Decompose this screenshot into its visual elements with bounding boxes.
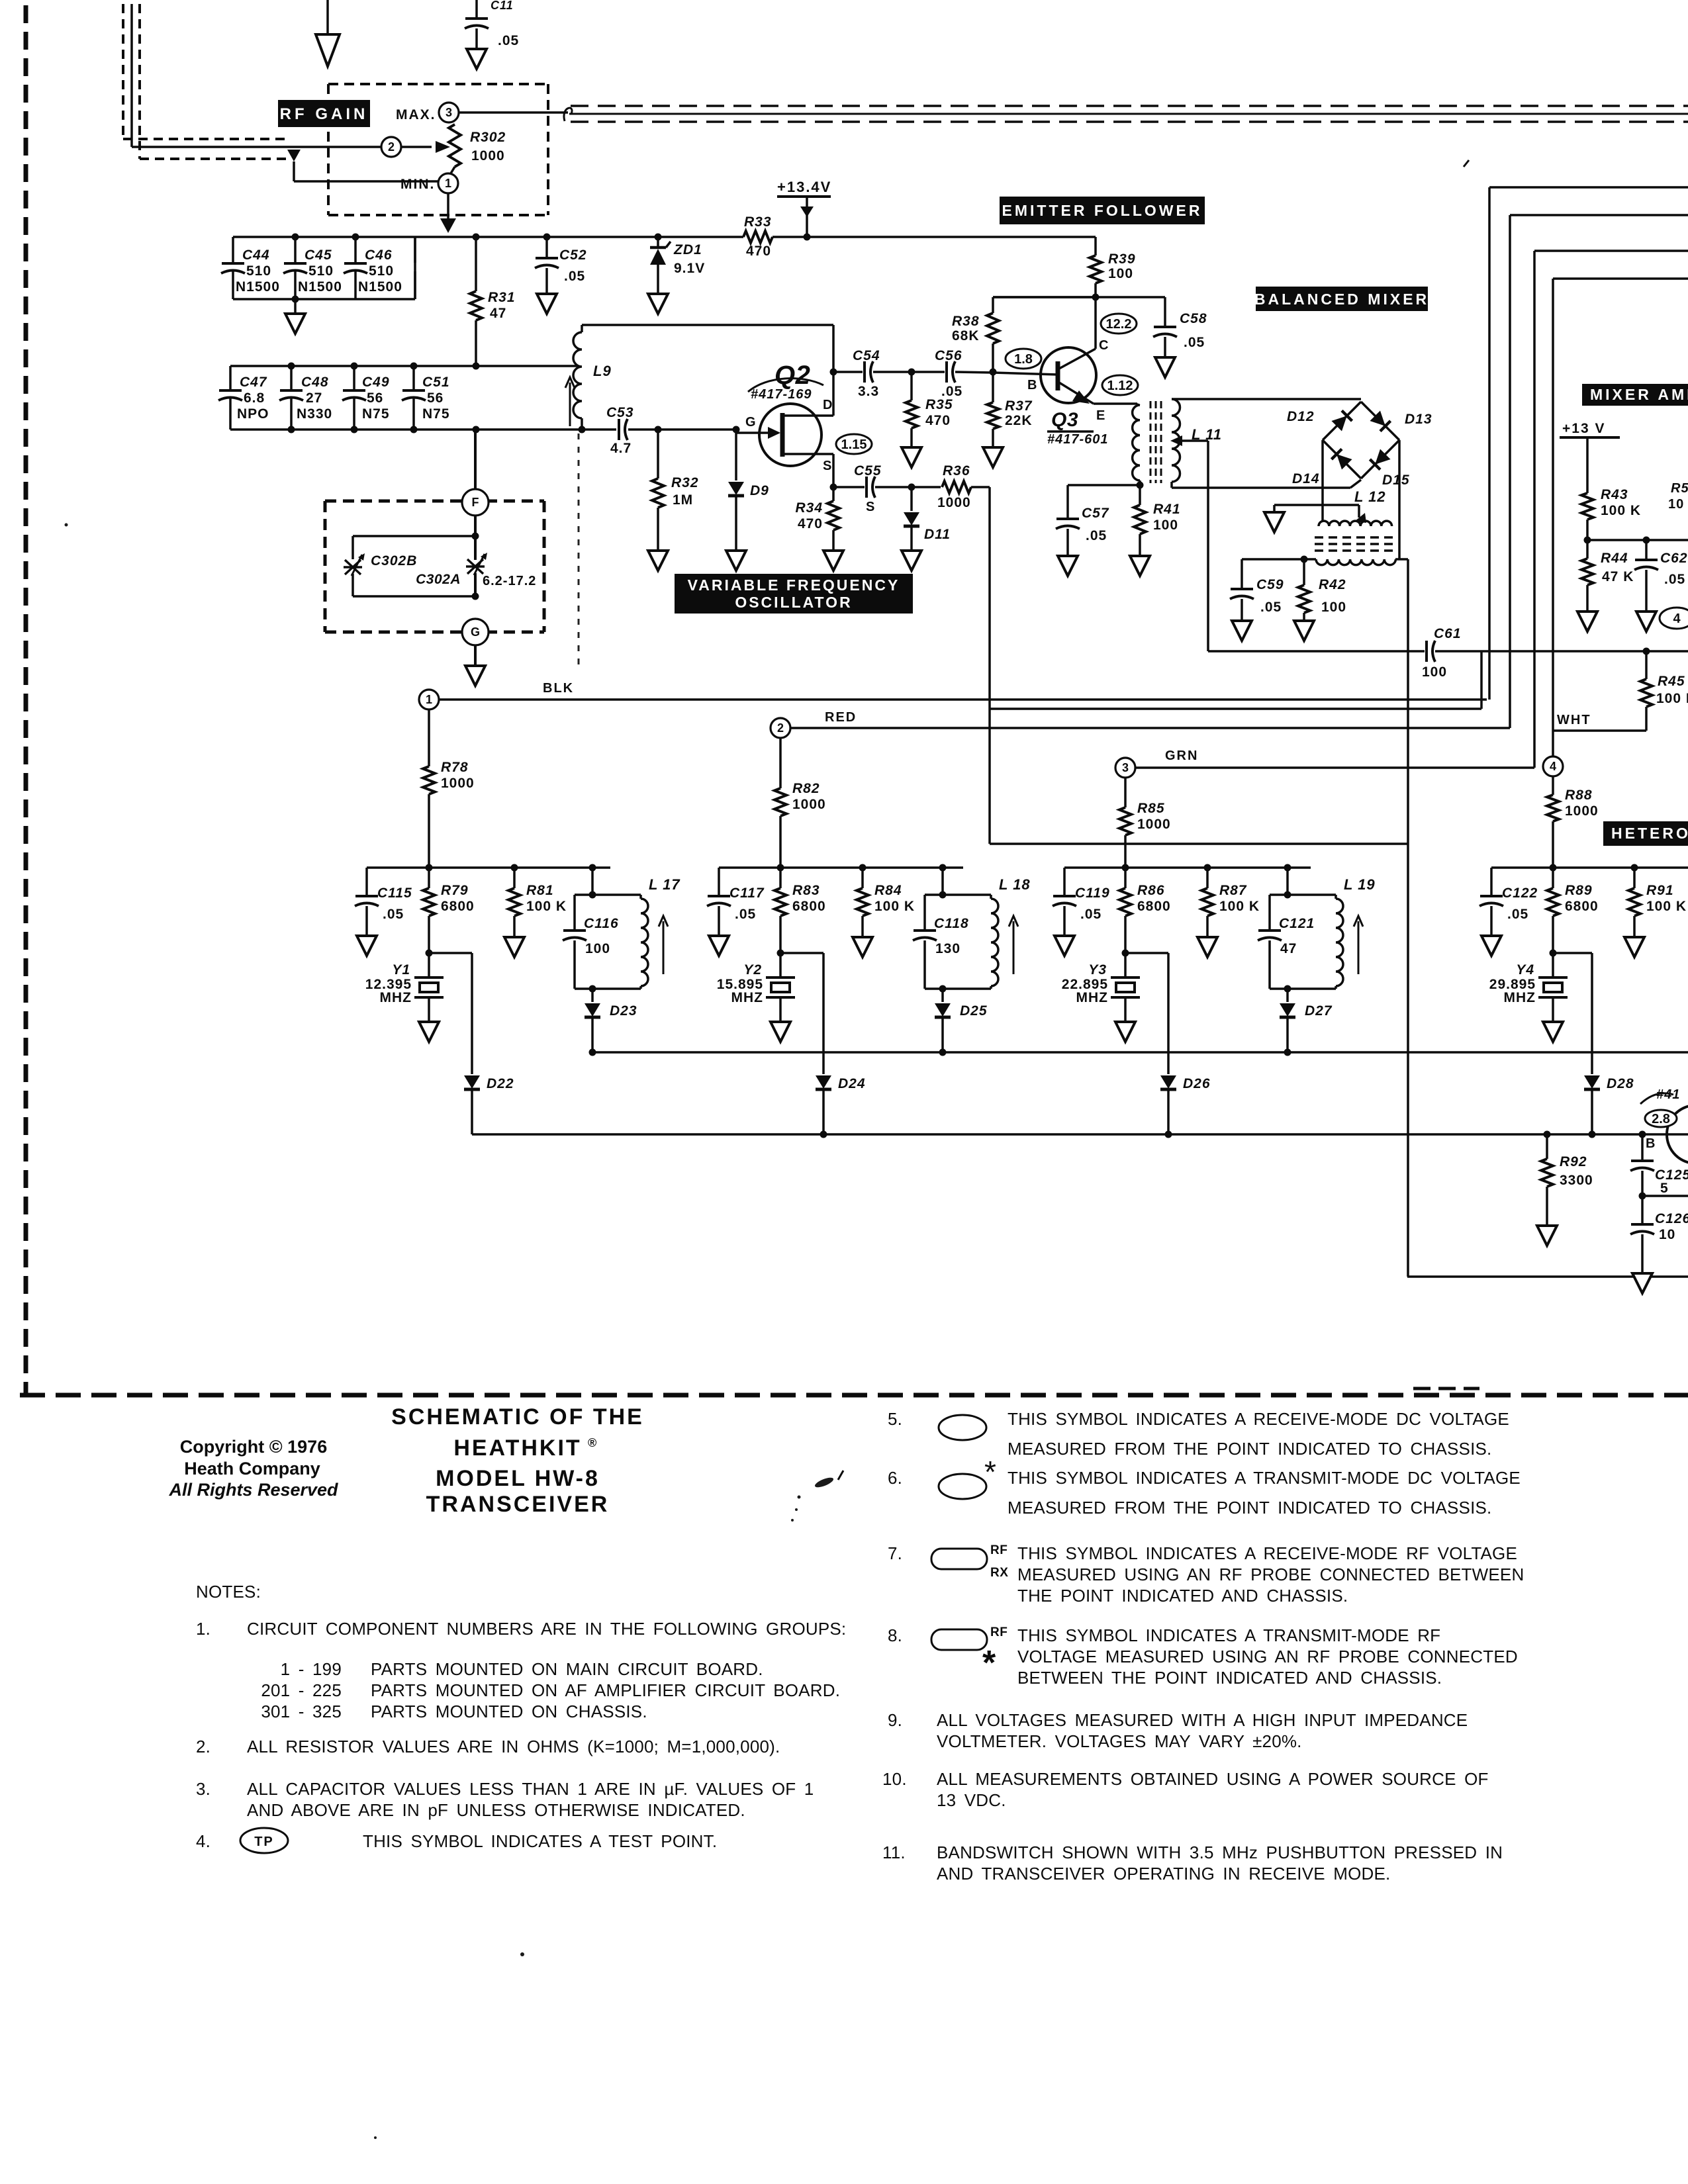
svg-text:5.: 5.	[888, 1409, 902, 1429]
svg-text:S: S	[866, 500, 875, 514]
svg-text:OSCILLATOR: OSCILLATOR	[735, 594, 852, 611]
svg-text:11.: 11.	[882, 1843, 906, 1862]
svg-text:ALL MEASUREMENTS OBTAINED USIN: ALL MEASUREMENTS OBTAINED USING A POWER …	[937, 1769, 1489, 1789]
svg-text:1.8: 1.8	[1014, 352, 1033, 367]
svg-text:R88: R88	[1565, 788, 1593, 803]
svg-text:C44: C44	[242, 248, 270, 263]
svg-text:C122: C122	[1502, 886, 1538, 901]
svg-text:PARTS MOUNTED ON CHASSIS.: PARTS MOUNTED ON CHASSIS.	[371, 1702, 647, 1721]
svg-text:R44: R44	[1601, 551, 1628, 566]
svg-text:4: 4	[1550, 760, 1556, 773]
svg-text:MEASURED FROM THE POINT INDICA: MEASURED FROM THE POINT INDICATED TO CHA…	[1008, 1498, 1491, 1518]
svg-text:1000: 1000	[792, 797, 826, 812]
svg-text:R85: R85	[1137, 801, 1165, 816]
svg-text:27: 27	[306, 390, 322, 406]
svg-text:N75: N75	[362, 406, 390, 422]
svg-text:N1500: N1500	[298, 279, 342, 295]
svg-text:1.12: 1.12	[1107, 379, 1133, 393]
svg-text:*: *	[984, 1455, 996, 1489]
svg-text:EMITTER FOLLOWER: EMITTER FOLLOWER	[1002, 202, 1203, 219]
svg-text:BLK: BLK	[543, 681, 574, 696]
svg-text:N75: N75	[422, 406, 450, 422]
svg-text:C45: C45	[305, 248, 332, 263]
svg-text:.05: .05	[941, 384, 962, 399]
svg-text:510: 510	[308, 263, 334, 279]
svg-text:R87: R87	[1219, 883, 1247, 898]
svg-text:2.8: 2.8	[1652, 1112, 1670, 1126]
svg-text:6800: 6800	[1137, 899, 1171, 914]
svg-text:RED: RED	[825, 710, 857, 725]
svg-text:C46: C46	[365, 248, 393, 263]
svg-text:510: 510	[246, 263, 271, 279]
svg-text:C62: C62	[1660, 551, 1688, 566]
svg-text:F: F	[472, 496, 479, 509]
svg-text:1.15: 1.15	[841, 437, 867, 452]
svg-text:1: 1	[445, 177, 451, 190]
svg-text:100 K: 100 K	[1219, 899, 1260, 914]
svg-text:ALL VOLTAGES MEASURED WITH A H: ALL VOLTAGES MEASURED WITH A HIGH INPUT …	[937, 1710, 1468, 1730]
svg-text:100: 100	[1153, 518, 1178, 533]
svg-text:C56: C56	[935, 348, 962, 363]
svg-text:9.1V: 9.1V	[674, 261, 705, 276]
svg-text:1 - 199: 1 - 199	[281, 1659, 342, 1679]
svg-text:D: D	[823, 398, 833, 412]
svg-text:R42: R42	[1319, 577, 1346, 592]
svg-text:R43: R43	[1601, 487, 1628, 502]
svg-text:HEATHKIT: HEATHKIT	[453, 1435, 581, 1461]
svg-text:NPO: NPO	[237, 406, 269, 422]
svg-text:10: 10	[1659, 1227, 1675, 1242]
svg-text:ALL CAPACITOR VALUES LESS THAN: ALL CAPACITOR VALUES LESS THAN 1 ARE IN …	[247, 1779, 814, 1799]
svg-text:7.: 7.	[888, 1543, 902, 1563]
svg-text:D13: D13	[1405, 412, 1432, 427]
svg-text:VOLTMETER. VOLTAGES MAY VARY: VOLTMETER. VOLTAGES MAY VARY ±20%.	[937, 1731, 1302, 1751]
svg-text:R81: R81	[526, 883, 554, 898]
svg-text:3.3: 3.3	[858, 384, 879, 399]
svg-text:D12: D12	[1287, 409, 1315, 424]
svg-text:201 - 225: 201 - 225	[261, 1680, 342, 1700]
svg-text:R31: R31	[488, 290, 516, 305]
svg-text:All Rights Reserved: All Rights Reserved	[168, 1480, 338, 1500]
svg-text:C302B: C302B	[371, 553, 417, 569]
svg-text:C52: C52	[559, 248, 587, 263]
svg-text:#417-169: #417-169	[751, 387, 812, 402]
svg-text:PARTS MOUNTED ON AF AMPLIFIER: PARTS MOUNTED ON AF AMPLIFIER CIRCUIT BO…	[371, 1680, 840, 1700]
svg-text:S: S	[823, 459, 832, 473]
svg-text:R82: R82	[792, 781, 820, 796]
svg-text:1: 1	[426, 693, 432, 706]
svg-text:3: 3	[445, 106, 452, 119]
svg-text:.05: .05	[1260, 600, 1282, 615]
svg-text:VOLTAGE MEASURED USING AN RF P: VOLTAGE MEASURED USING AN RF PROBE CONNE…	[1017, 1647, 1518, 1666]
svg-text:.05: .05	[1664, 572, 1685, 587]
svg-text:THIS SYMBOL INDICATES A RECEIV: THIS SYMBOL INDICATES A RECEIVE-MODE DC …	[1008, 1409, 1509, 1429]
svg-text:GRN: GRN	[1165, 749, 1198, 763]
svg-text:G: G	[471, 625, 480, 639]
svg-text:C121: C121	[1279, 916, 1315, 931]
svg-text:C58: C58	[1180, 311, 1207, 326]
svg-text:100: 100	[585, 941, 610, 956]
svg-text:G: G	[745, 415, 756, 430]
svg-text:9.: 9.	[888, 1710, 902, 1730]
svg-text:N1500: N1500	[358, 279, 402, 295]
svg-text:HETERODY: HETERODY	[1611, 825, 1688, 842]
svg-text:R34: R34	[795, 500, 823, 516]
svg-text:C55: C55	[854, 463, 882, 478]
svg-text:6.: 6.	[888, 1468, 902, 1488]
svg-text:R33: R33	[744, 214, 772, 230]
svg-text:C118: C118	[934, 916, 969, 931]
svg-text:C51: C51	[422, 375, 450, 390]
svg-text:3300: 3300	[1560, 1173, 1593, 1188]
svg-text:N1500: N1500	[236, 279, 280, 295]
svg-text:R32: R32	[671, 475, 699, 490]
svg-text:C61: C61	[1434, 626, 1462, 641]
svg-text:TRANSCEIVER: TRANSCEIVER	[426, 1492, 610, 1517]
svg-text:TP: TP	[254, 1835, 274, 1849]
svg-text:THIS SYMBOL INDICATES A TRANSM: THIS SYMBOL INDICATES A TRANSMIT-MODE DC…	[1008, 1468, 1521, 1488]
svg-text:R41: R41	[1153, 502, 1181, 517]
svg-text:NOTES:: NOTES:	[196, 1582, 261, 1602]
svg-text:D15: D15	[1382, 473, 1410, 488]
svg-text:Y2: Y2	[743, 962, 762, 978]
svg-text:MODEL HW-8: MODEL HW-8	[436, 1466, 600, 1491]
svg-text:8.: 8.	[888, 1625, 902, 1645]
svg-text:AND ABOVE ARE IN pF UNLESS OTH: AND ABOVE ARE IN pF UNLESS OTHERWISE IND…	[247, 1800, 745, 1820]
svg-text:1.: 1.	[196, 1619, 211, 1639]
svg-text:4.7: 4.7	[610, 441, 632, 456]
svg-text:301 - 325: 301 - 325	[261, 1702, 342, 1721]
svg-text:4.: 4.	[196, 1831, 211, 1851]
svg-text:1000: 1000	[471, 148, 505, 163]
svg-text:AND TRANSCEIVER OPERATING IN R: AND TRANSCEIVER OPERATING IN RECEIVE MOD…	[937, 1864, 1390, 1884]
svg-text:47 K: 47 K	[1602, 569, 1634, 584]
svg-text:C49: C49	[362, 375, 390, 390]
svg-text:1000: 1000	[441, 776, 475, 791]
svg-text:510: 510	[369, 263, 394, 279]
svg-text:SCHEMATIC OF THE: SCHEMATIC OF THE	[391, 1404, 644, 1430]
svg-text:MEASURED USING AN RF PROBE CON: MEASURED USING AN RF PROBE CONNECTED BET…	[1017, 1565, 1524, 1584]
svg-text:.05: .05	[564, 269, 585, 284]
svg-text:C: C	[1099, 338, 1109, 353]
svg-text:PARTS MOUNTED ON MAIN CIRCUIT: PARTS MOUNTED ON MAIN CIRCUIT BOARD.	[371, 1659, 763, 1679]
svg-text:Y3: Y3	[1088, 962, 1107, 978]
svg-text:100: 100	[1422, 664, 1447, 680]
svg-text:C59: C59	[1256, 577, 1284, 592]
svg-text:13 VDC.: 13 VDC.	[937, 1790, 1006, 1810]
svg-text:6800: 6800	[441, 899, 475, 914]
svg-text:6.2-17.2: 6.2-17.2	[483, 574, 536, 588]
svg-text:B: B	[1646, 1136, 1656, 1151]
svg-text:MIN.: MIN.	[400, 177, 435, 192]
svg-text:C11: C11	[491, 0, 514, 12]
svg-text:R89: R89	[1565, 883, 1593, 898]
svg-text:C126: C126	[1655, 1211, 1688, 1226]
svg-text:N330: N330	[297, 406, 332, 422]
svg-text:Y4: Y4	[1516, 962, 1534, 978]
svg-text:C57: C57	[1082, 506, 1109, 521]
svg-text:THIS SYMBOL INDICATES A RECEIV: THIS SYMBOL INDICATES A RECEIVE-MODE RF …	[1017, 1543, 1517, 1563]
svg-text:D23: D23	[610, 1003, 637, 1019]
svg-text:47: 47	[490, 306, 506, 321]
svg-text:L 18: L 18	[999, 876, 1031, 893]
svg-text:3: 3	[1122, 761, 1129, 774]
svg-text:+13 V: +13 V	[1562, 421, 1605, 436]
svg-text:100 K: 100 K	[1656, 691, 1688, 706]
svg-text:®: ®	[588, 1436, 596, 1449]
svg-text:10.: 10.	[882, 1769, 907, 1789]
svg-text:#41: #41	[1656, 1087, 1680, 1102]
svg-text:D24: D24	[838, 1076, 866, 1091]
svg-text:BETWEEN THE POINT INDICATED AN: BETWEEN THE POINT INDICATED AND CHASSIS.	[1017, 1668, 1442, 1688]
svg-text:MHZ: MHZ	[731, 990, 764, 1005]
svg-text:R37: R37	[1005, 398, 1033, 414]
svg-text:100 K: 100 K	[1601, 503, 1641, 518]
svg-text:R302: R302	[470, 130, 506, 145]
svg-text:C115: C115	[377, 886, 412, 901]
svg-text:RX: RX	[990, 1566, 1008, 1580]
svg-text:MHZ: MHZ	[1504, 990, 1536, 1005]
svg-text:B: B	[1027, 378, 1037, 392]
svg-text:100 K: 100 K	[1646, 899, 1687, 914]
svg-text:Copyright © 1976: Copyright © 1976	[180, 1437, 327, 1457]
svg-text:D27: D27	[1305, 1003, 1333, 1019]
svg-text:C117: C117	[729, 886, 765, 901]
svg-text:.05: .05	[735, 907, 756, 922]
svg-text:.05: .05	[1184, 335, 1205, 350]
svg-text:12.2: 12.2	[1106, 317, 1132, 332]
svg-text:100: 100	[1108, 266, 1133, 281]
svg-text:MAX.: MAX.	[396, 107, 436, 122]
svg-text:C116: C116	[584, 916, 619, 931]
svg-text:R45: R45	[1658, 674, 1685, 689]
svg-text:2: 2	[777, 721, 784, 735]
svg-text:RF: RF	[990, 1625, 1008, 1639]
svg-text:R38: R38	[952, 314, 980, 329]
svg-text:L 12: L 12	[1354, 488, 1386, 505]
svg-text:1000: 1000	[937, 495, 971, 510]
svg-text:1000: 1000	[1565, 803, 1599, 819]
svg-text:WHT: WHT	[1557, 713, 1591, 727]
svg-text:CIRCUIT COMPONENT NUMBERS ARE: CIRCUIT COMPONENT NUMBERS ARE IN THE FOL…	[247, 1619, 846, 1639]
svg-text:68K: 68K	[952, 328, 980, 343]
svg-text:47: 47	[1280, 941, 1297, 956]
svg-text:4: 4	[1673, 612, 1681, 626]
svg-text:L 19: L 19	[1344, 876, 1376, 893]
svg-text:ALL RESISTOR VALUES ARE IN OHM: ALL RESISTOR VALUES ARE IN OHMS (K=1000;…	[247, 1737, 780, 1756]
svg-text:R78: R78	[441, 760, 469, 775]
svg-text:RF GAIN: RF GAIN	[280, 105, 369, 123]
svg-text:C302A: C302A	[416, 572, 461, 587]
svg-text:5: 5	[1660, 1181, 1669, 1196]
svg-text:2.: 2.	[196, 1737, 211, 1756]
svg-text:D22: D22	[487, 1076, 514, 1091]
svg-text:RF: RF	[990, 1543, 1008, 1557]
svg-text:470: 470	[746, 244, 771, 259]
svg-text:470: 470	[798, 516, 823, 531]
svg-text:.05: .05	[1507, 907, 1528, 922]
svg-text:10 K: 10 K	[1668, 497, 1688, 512]
svg-text:BANDSWITCH SHOWN WITH 3.5 MHz: BANDSWITCH SHOWN WITH 3.5 MHz PUSHBUTTON…	[937, 1843, 1503, 1862]
svg-text:6.8: 6.8	[244, 390, 265, 406]
svg-text:R91: R91	[1646, 883, 1674, 898]
svg-text:D14: D14	[1292, 471, 1320, 486]
svg-text:C54: C54	[853, 348, 880, 363]
svg-text:D11: D11	[924, 527, 951, 542]
svg-text:L9: L9	[593, 363, 612, 379]
svg-text:R79: R79	[441, 883, 469, 898]
svg-text:THE POINT INDICATED AND CHASSI: THE POINT INDICATED AND CHASSIS.	[1017, 1586, 1348, 1606]
svg-text:100 K: 100 K	[526, 899, 567, 914]
svg-text:E: E	[1096, 408, 1105, 423]
svg-text:MHZ: MHZ	[1076, 990, 1109, 1005]
svg-text:MIXER AMPL: MIXER AMPL	[1590, 386, 1688, 403]
svg-text:D28: D28	[1607, 1076, 1634, 1091]
svg-text:130: 130	[935, 941, 961, 956]
svg-text:C119: C119	[1075, 886, 1110, 901]
svg-text:MHZ: MHZ	[380, 990, 412, 1005]
svg-text:.05: .05	[1080, 907, 1102, 922]
svg-text:Y1: Y1	[392, 962, 410, 978]
svg-text:56: 56	[427, 390, 444, 406]
svg-text:C48: C48	[301, 375, 329, 390]
svg-text:L 17: L 17	[649, 876, 680, 893]
svg-text:3.: 3.	[196, 1779, 211, 1799]
svg-text:56: 56	[367, 390, 383, 406]
svg-text:R39: R39	[1108, 251, 1136, 267]
svg-text:+13.4V: +13.4V	[777, 179, 831, 195]
svg-text:VARIABLE FREQUENCY: VARIABLE FREQUENCY	[688, 576, 900, 594]
svg-text:R35: R35	[925, 397, 953, 412]
svg-text:R50: R50	[1671, 481, 1688, 496]
svg-text:2: 2	[388, 140, 395, 154]
svg-text:R86: R86	[1137, 883, 1165, 898]
svg-text:BALANCED MIXER: BALANCED MIXER	[1254, 291, 1429, 308]
svg-text:470: 470	[925, 413, 951, 428]
svg-text:R84: R84	[874, 883, 902, 898]
svg-text:D9: D9	[750, 483, 769, 498]
svg-text:.05: .05	[498, 33, 519, 48]
svg-text:THIS SYMBOL INDICATES A TEST P: THIS SYMBOL INDICATES A TEST POINT.	[363, 1831, 717, 1851]
svg-text:C53: C53	[606, 405, 634, 420]
svg-text:100 K: 100 K	[874, 899, 915, 914]
svg-text:D26: D26	[1183, 1076, 1211, 1091]
svg-text:MEASURED FROM THE POINT INDICA: MEASURED FROM THE POINT INDICATED TO CHA…	[1008, 1439, 1491, 1459]
svg-text:C47: C47	[240, 375, 267, 390]
svg-text:1M: 1M	[673, 492, 693, 508]
svg-text:6800: 6800	[1565, 899, 1599, 914]
svg-text:.05: .05	[383, 907, 404, 922]
svg-text:22K: 22K	[1005, 413, 1033, 428]
svg-text:Heath Company: Heath Company	[184, 1459, 320, 1479]
svg-text:THIS SYMBOL INDICATES A TRANSM: THIS SYMBOL INDICATES A TRANSMIT-MODE RF	[1017, 1625, 1440, 1645]
svg-text:Q2: Q2	[774, 361, 810, 390]
svg-text:*: *	[982, 1644, 996, 1682]
svg-text:#417-601: #417-601	[1047, 432, 1109, 447]
svg-text:1000: 1000	[1137, 817, 1171, 832]
svg-text:6800: 6800	[792, 899, 826, 914]
svg-text:R92: R92	[1560, 1154, 1587, 1169]
svg-text:R36: R36	[943, 463, 970, 478]
svg-text:Q3: Q3	[1051, 409, 1078, 431]
svg-text:.05: .05	[1086, 528, 1107, 543]
svg-text:R83: R83	[792, 883, 820, 898]
svg-text:D25: D25	[960, 1003, 988, 1019]
svg-text:100: 100	[1321, 600, 1346, 615]
svg-text:ZD1: ZD1	[673, 242, 702, 257]
